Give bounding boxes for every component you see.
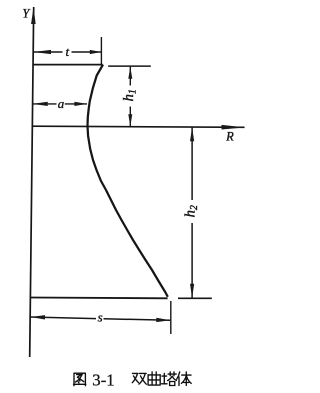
caption char 体	[177, 372, 192, 386]
h2 bottom arrowhead	[190, 284, 194, 298]
svg-text:h2: h2	[183, 205, 200, 217]
caption char 双	[132, 373, 146, 384]
Y axis arrowhead	[31, 7, 36, 24]
s right arrowhead	[156, 318, 170, 322]
t right arrowhead	[90, 50, 102, 54]
svg-text:a: a	[58, 96, 65, 111]
h1 dimension line	[129, 67, 131, 86]
hyperbola curve	[88, 65, 168, 297]
a dimension line	[33, 103, 57, 105]
R axis	[32, 126, 244, 127]
t extension line	[100, 37, 102, 64]
tower top line	[33, 64, 103, 66]
svg-text:h1: h1	[121, 89, 138, 101]
svg-text:s: s	[98, 310, 103, 325]
s dimension line	[30, 317, 96, 319]
h1 top reference bar	[108, 65, 151, 67]
caption char 图	[74, 373, 86, 386]
h2 top arrowhead	[190, 127, 194, 141]
R axis arrowhead	[221, 125, 245, 130]
svg-text:R: R	[225, 129, 234, 143]
caption char 塔	[162, 372, 177, 386]
t left arrowhead	[33, 50, 51, 54]
a right arrowhead	[74, 102, 87, 106]
tower bottom line	[30, 297, 167, 300]
a left arrowhead	[33, 102, 48, 106]
h2 bottom reference bar	[178, 297, 212, 299]
svg-text:t: t	[65, 44, 69, 59]
h1 top arrowhead	[128, 67, 132, 79]
caption: 图 3-1 双曲塔体	[74, 370, 192, 389]
h2 dimension line	[191, 127, 193, 200]
Y axis	[30, 7, 34, 357]
t dimension line	[33, 51, 62, 53]
h1 bottom arrowhead	[128, 114, 132, 126]
s left arrowhead	[30, 315, 45, 319]
s extension line	[170, 301, 172, 334]
svg-text:3-1: 3-1	[92, 370, 114, 389]
caption char 曲	[148, 372, 160, 385]
svg-text:Y: Y	[22, 7, 31, 21]
